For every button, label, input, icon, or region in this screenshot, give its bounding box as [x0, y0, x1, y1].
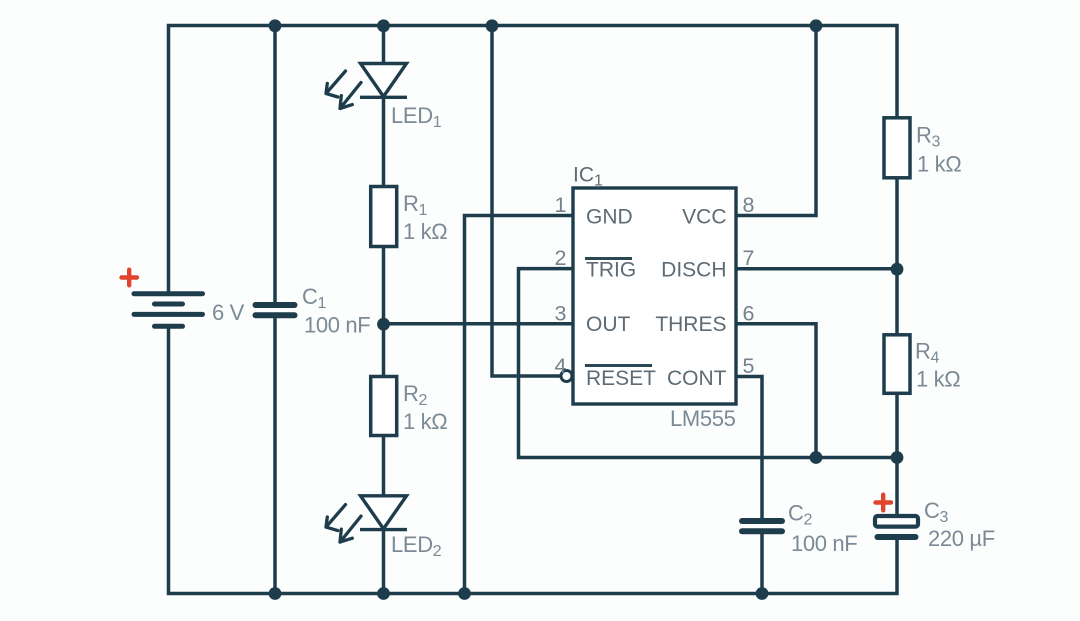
svg-text:2: 2 [555, 246, 567, 270]
wire: R1 to OUT node to R2 [382, 247, 386, 377]
wire: THRES pin 6 down to trigger line [736, 324, 816, 458]
LED1 emission arrows [326, 71, 361, 109]
node: bottom rail / GND junction [458, 587, 471, 600]
node: R4 / C3 junction [891, 451, 904, 464]
LED2 emission arrows [326, 505, 361, 542]
wire: CONT pin 5 down through C2 [736, 377, 762, 519]
svg-text:1 kΩ: 1 kΩ [917, 152, 961, 177]
wire: TRIG pin 2 down and along to THRES/C3 node [519, 269, 898, 458]
node: DISCH / R3 / R4 junction [891, 263, 904, 276]
node: OUT / R1 / R2 junction [377, 318, 390, 331]
LED1 cathode bar [360, 96, 407, 99]
svg-text:7: 7 [743, 246, 755, 270]
RESET overline [585, 364, 652, 367]
wire: R2 to LED2 [382, 436, 386, 497]
svg-text:OUT: OUT [586, 313, 631, 336]
node: top rail / VCC junction [810, 19, 823, 32]
wire: C1 top branch [273, 26, 277, 303]
node: top rail / RESET feed junction [486, 19, 499, 32]
svg-text:6 V: 6 V [212, 300, 245, 325]
LED LED1 [361, 64, 407, 97]
svg-text:6: 6 [743, 302, 755, 326]
svg-text:VCC: VCC [682, 206, 726, 229]
svg-text:220 µF: 220 µF [928, 526, 995, 551]
capacitor C3 polarized top plate [875, 516, 918, 527]
wire: battery bottom to bottom rail, bottom rail, up to C3 bottom [169, 326, 898, 594]
TRIG overline [585, 257, 632, 260]
resistor R1 [371, 187, 397, 247]
svg-text:1 kΩ: 1 kΩ [916, 367, 960, 392]
svg-text:TRIG: TRIG [586, 259, 636, 282]
svg-text:CONT: CONT [667, 367, 727, 390]
wire: right rail R3 to R4 through DISCH node [895, 178, 899, 335]
resistor R4 [884, 335, 910, 394]
resistor R2 [371, 377, 397, 436]
pin 4 inversion bubble [561, 371, 572, 382]
svg-text:5: 5 [743, 354, 755, 378]
node: bottom rail / C2 junction [756, 587, 769, 600]
svg-text:4: 4 [555, 354, 567, 378]
node: THRES / trigger line junction [810, 451, 823, 464]
svg-text:1 kΩ: 1 kΩ [403, 409, 447, 434]
wire: right rail R4 to C3 through THRES node [895, 393, 899, 515]
LED LED2 [361, 496, 407, 529]
svg-text:8: 8 [743, 193, 755, 217]
op-amp/timer IC1 body [573, 188, 736, 404]
svg-text:THRES: THRES [655, 313, 726, 336]
battery plus sign [122, 270, 138, 286]
wire: top rail to RESET pin 4 [492, 26, 561, 377]
wire: C2 bottom to bottom rail [760, 534, 764, 594]
svg-text:GND: GND [586, 206, 633, 229]
resistor R3 [884, 118, 910, 178]
wire: LED1 to R1 [382, 97, 386, 187]
wire: DISCH pin 7 to right rail [736, 267, 897, 271]
wire: OUT pin 3 to R1/R2 node [384, 322, 574, 326]
wire: VCC pin 8 up to top rail [736, 26, 816, 216]
wire: C1 bottom to bottom rail [273, 318, 277, 594]
svg-text:3: 3 [555, 302, 567, 326]
svg-text:1 kΩ: 1 kΩ [403, 219, 447, 244]
node: bottom rail / LED2 junction [377, 587, 390, 600]
svg-text:1: 1 [555, 193, 567, 217]
node: top rail / C1 junction [269, 19, 282, 32]
node: bottom rail / C1 junction [269, 587, 282, 600]
svg-text:100 nF: 100 nF [791, 531, 857, 556]
svg-text:DISCH: DISCH [661, 259, 726, 282]
node: top rail / LED1 junction [377, 19, 390, 32]
capacitor C2 [742, 521, 782, 531]
wire: GND pin 1 to bottom rail [465, 216, 574, 594]
wire: top rail to LED1 [382, 26, 386, 64]
LED2 cathode bar [360, 528, 407, 531]
C3 plus sign [876, 495, 892, 511]
capacitor C3 bottom plate [878, 534, 916, 540]
capacitor C1 [256, 305, 295, 315]
battery BT1 6 V [134, 294, 203, 327]
svg-text:100 nF: 100 nF [304, 313, 370, 338]
wire: LED2 to bottom rail [382, 530, 386, 594]
wire: left rail + top rail + right rail down to R3 [169, 26, 898, 295]
svg-text:RESET: RESET [586, 367, 656, 390]
svg-text:LM555: LM555 [670, 406, 736, 431]
